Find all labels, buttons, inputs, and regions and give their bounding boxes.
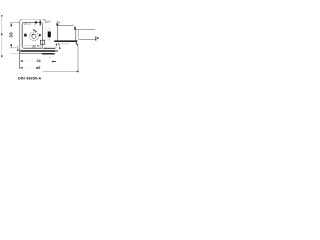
below bar small blob — [57, 43, 60, 45]
pin pad right — [39, 34, 41, 36]
front view outer bottom-left corner — [20, 49, 22, 51]
dim cable: faint line — [23, 67, 36, 69]
dim 24: left arrow stub — [20, 60, 23, 62]
svg-text:Ø7.: Ø7. — [46, 20, 52, 24]
junction blob y52 — [19, 52, 20, 54]
inner face bottom edge extended — [23, 47, 44, 49]
dim 24: right stub tail — [53, 60, 56, 63]
cable dia leader vertical — [77, 45, 79, 72]
bottom notch faint mark — [39, 45, 41, 47]
dim 24: faint line — [23, 60, 36, 62]
tick above bar end — [55, 47, 58, 48]
left page border line — [1, 15, 3, 57]
earth pin dark bar top-right — [40, 20, 41, 25]
below bar vertical — [59, 44, 61, 47]
step dark blob — [74, 27, 75, 30]
center screw inner circle — [32, 34, 36, 38]
below bar arrow diagonal — [76, 43, 78, 46]
top-center dark blob — [35, 21, 37, 23]
front view outer right edge faint — [44, 23, 46, 49]
dim cable: left arrow stub — [20, 67, 23, 69]
keyway box bottom-right — [40, 40, 44, 44]
faint line y53 — [11, 53, 20, 55]
front view bottom thick bar — [21, 50, 56, 52]
front view outer left edge — [19, 21, 21, 49]
below bar vertical end dot — [59, 48, 60, 50]
inner left edge darker — [21, 24, 23, 46]
dim 24: right arrow stub — [52, 61, 56, 63]
cable bottom line — [79, 38, 96, 40]
below bar arrow blob — [56, 43, 58, 46]
left border top tick — [1, 15, 2, 17]
bar end dot — [56, 50, 57, 52]
front view outer top-right corner — [44, 19, 46, 22]
leader tick near bottom-left corner — [17, 46, 19, 50]
bottom notch small dot — [37, 45, 38, 46]
front view outer bottom-right corner — [44, 48, 46, 49]
side view bottom thick bar — [54, 40, 77, 42]
dim 33: bottom arrow — [10, 44, 12, 47]
cable dia leader horizontal — [43, 71, 78, 73]
side view small dot above corner — [59, 22, 60, 23]
cable dia leader corner — [77, 71, 79, 72]
svg-text:33: 33 — [8, 32, 14, 38]
lower interface line dark segment — [42, 53, 55, 55]
svg-text:ø5: ø5 — [36, 66, 40, 70]
lower interface line gray — [20, 53, 42, 55]
leader dot bottom-left corner — [17, 49, 18, 51]
cable top line — [76, 29, 96, 31]
leader line to center hole — [33, 29, 37, 32]
front view outer top-left corner — [20, 19, 22, 21]
top-center small dot below — [34, 24, 37, 25]
svg-text:DIN 43650-A: DIN 43650-A — [18, 76, 41, 81]
gland right edge — [78, 30, 80, 39]
svg-text:Ø4,5: Ø4,5 — [24, 22, 31, 26]
left border bottom tick — [1, 55, 2, 57]
bottom dims: left extension vertical — [19, 49, 21, 70]
dim 33: top extension line — [10, 21, 20, 23]
pin pad left — [24, 34, 26, 37]
black gasket square between views — [48, 32, 51, 38]
left border middle tick — [1, 33, 2, 35]
cable end bar — [94, 36, 97, 40]
front view inner face square — [22, 22, 42, 48]
dashed centerline — [22, 44, 32, 46]
side view top edge end tip — [71, 24, 74, 25]
side view top edge — [58, 25, 73, 27]
inner bottom edge dark segment — [44, 48, 56, 49]
side view corner arrow blob — [56, 23, 58, 25]
inner circle dark arc — [32, 34, 34, 36]
small tick right vertical — [49, 56, 51, 58]
svg-text:30: 30 — [32, 44, 36, 48]
dim 33: bottom extension line — [10, 47, 17, 49]
below bar gray line — [60, 43, 70, 45]
dim 33: top arrow — [10, 23, 12, 27]
side body right edge — [75, 30, 77, 41]
cable end dot — [97, 37, 98, 39]
front view outer top edge — [22, 18, 44, 20]
side view left edge — [57, 25, 59, 40]
center screw outer dashed circle — [30, 32, 39, 41]
side view left edge upper stub — [56, 21, 58, 24]
